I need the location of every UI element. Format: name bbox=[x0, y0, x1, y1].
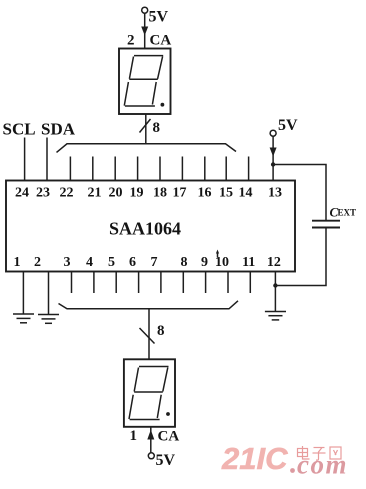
segment g DIS1 bbox=[134, 391, 163, 393]
top bus rake bbox=[57, 144, 237, 153]
wire pin13 node to Cext rail bbox=[273, 165, 326, 221]
wire tooth pin7 bbox=[160, 272, 162, 294]
wire 5V right to pin13 bbox=[272, 136, 274, 180]
svg-text:16: 16 bbox=[198, 186, 212, 201]
svg-text:1: 1 bbox=[130, 428, 138, 444]
pin 10 arrow mark bbox=[217, 252, 219, 258]
wire tooth pin19 bbox=[137, 157, 139, 181]
logo 网 glyph bbox=[330, 447, 341, 459]
svg-text:7: 7 bbox=[151, 255, 158, 270]
wire tooth pin9 bbox=[205, 272, 207, 294]
svg-text:SAA1064: SAA1064 bbox=[109, 219, 181, 239]
wire Cext to pin12 node bbox=[275, 228, 326, 286]
ground (pin2) bbox=[38, 315, 59, 324]
svg-text:19: 19 bbox=[130, 186, 144, 201]
bottom bus rake bbox=[59, 301, 239, 309]
wire tooth pin14 bbox=[248, 157, 250, 181]
segment f DIS2 bbox=[129, 57, 133, 79]
ground (pin1) bbox=[13, 314, 34, 323]
svg-text:CA: CA bbox=[150, 33, 172, 49]
wire pin12 to ground bbox=[274, 272, 276, 312]
svg-text:15: 15 bbox=[219, 186, 233, 201]
arrowhead down into DIS2 bbox=[141, 27, 148, 36]
wire tooth pin17 bbox=[181, 157, 183, 181]
wire tooth pin11 bbox=[249, 272, 251, 294]
segment c DIS2 bbox=[152, 82, 156, 105]
svg-text:3: 3 bbox=[64, 255, 71, 270]
ground (pin12) bbox=[265, 312, 286, 320]
decimal point DIS2 bbox=[161, 103, 165, 107]
svg-text:4: 4 bbox=[86, 255, 93, 270]
wire SDA to pin23 bbox=[46, 138, 48, 181]
IC U1 SAA1064 body bbox=[6, 181, 295, 272]
wire SCL to pin24 bbox=[24, 138, 26, 181]
wire tooth pin3 bbox=[71, 272, 73, 294]
display DIS2 (7-segment, top) body bbox=[119, 49, 171, 115]
svg-text:12: 12 bbox=[267, 255, 281, 270]
arrowhead up into DIS1 bbox=[147, 430, 154, 440]
svg-text:6: 6 bbox=[129, 255, 136, 270]
svg-text:21IC: 21IC bbox=[221, 441, 288, 476]
segment f DIS1 bbox=[134, 368, 138, 392]
decimal point DIS1 bbox=[166, 412, 170, 416]
wire tooth pin16 bbox=[204, 157, 206, 181]
svg-text:8: 8 bbox=[153, 120, 161, 136]
capacitor Cext bottom plate bbox=[312, 227, 340, 229]
svg-text:23: 23 bbox=[36, 186, 50, 201]
svg-text:SCL: SCL bbox=[3, 120, 36, 139]
svg-text:EXT: EXT bbox=[338, 208, 357, 218]
segment d DIS2 bbox=[125, 105, 155, 107]
segment a DIS1 bbox=[139, 366, 169, 368]
segment b DIS1 bbox=[163, 368, 168, 392]
wire pin1 to ground bbox=[22, 272, 24, 315]
display DIS1 (7-segment, bottom) body bbox=[124, 359, 175, 427]
svg-text:5V: 5V bbox=[156, 452, 176, 469]
wire tooth pin22 bbox=[69, 157, 71, 181]
segment b DIS2 bbox=[158, 57, 163, 79]
wire tooth pin20 bbox=[114, 157, 116, 181]
svg-text:2: 2 bbox=[127, 33, 135, 49]
svg-text:17: 17 bbox=[173, 186, 187, 201]
svg-text:24: 24 bbox=[15, 186, 29, 201]
svg-text:18: 18 bbox=[153, 186, 167, 201]
arrowhead down to pin13 bbox=[270, 148, 277, 157]
svg-text:8: 8 bbox=[157, 323, 165, 339]
segment a DIS2 bbox=[134, 55, 163, 57]
wire tooth pin4 bbox=[93, 272, 95, 294]
svg-text:11: 11 bbox=[242, 255, 255, 270]
segment g DIS2 bbox=[129, 78, 158, 80]
svg-text:SDA: SDA bbox=[41, 120, 76, 139]
svg-text:5V: 5V bbox=[149, 9, 169, 26]
svg-text:1: 1 bbox=[14, 255, 21, 270]
logo 电 glyph bbox=[298, 446, 310, 459]
svg-text:2: 2 bbox=[34, 255, 41, 270]
junction pin13 node bbox=[271, 162, 275, 166]
svg-text:5: 5 bbox=[108, 255, 115, 270]
node 5V supply (bottom) terminal circle bbox=[148, 453, 154, 459]
wire pin2 to ground bbox=[48, 272, 50, 315]
wire bus rake to DIS1 bbox=[148, 309, 150, 360]
wire bus DIS2 to top rake bbox=[145, 114, 147, 144]
svg-text:5V: 5V bbox=[278, 117, 298, 134]
segment d DIS1 bbox=[130, 419, 160, 421]
svg-text:8: 8 bbox=[181, 255, 188, 270]
svg-text:com: com bbox=[297, 450, 348, 480]
wire tooth pin6 bbox=[138, 272, 140, 294]
wire tooth pin21 bbox=[92, 157, 94, 181]
wire 5V top to display DIS2 CA bbox=[144, 13, 146, 48]
wire tooth pin18 bbox=[159, 157, 161, 181]
wire tooth pin15 bbox=[225, 157, 227, 181]
svg-text:21: 21 bbox=[88, 186, 102, 201]
wire tooth pin10 bbox=[227, 272, 229, 294]
svg-text:13: 13 bbox=[268, 186, 282, 201]
node 5V supply (top) terminal circle bbox=[142, 7, 148, 13]
capacitor Cext top plate bbox=[312, 220, 340, 222]
bus slash (bottom) bbox=[140, 328, 155, 344]
wire tooth pin8 bbox=[182, 272, 184, 294]
segment e DIS1 bbox=[129, 395, 133, 419]
svg-text:14: 14 bbox=[239, 186, 253, 201]
segment c DIS1 bbox=[157, 395, 161, 418]
logo dot bbox=[290, 468, 295, 473]
bus slash (top) bbox=[140, 119, 151, 133]
svg-text:22: 22 bbox=[60, 186, 74, 201]
svg-text:CA: CA bbox=[158, 429, 180, 445]
junction pin12 node bbox=[273, 283, 277, 287]
segment e DIS2 bbox=[124, 82, 128, 106]
svg-text:20: 20 bbox=[109, 186, 123, 201]
wire 5V bottom to DIS1 bbox=[150, 427, 152, 453]
svg-text:9: 9 bbox=[201, 255, 208, 270]
node 5V supply (right) terminal circle bbox=[270, 130, 276, 136]
logo 子 glyph bbox=[313, 448, 326, 461]
wire tooth pin5 bbox=[115, 272, 117, 294]
